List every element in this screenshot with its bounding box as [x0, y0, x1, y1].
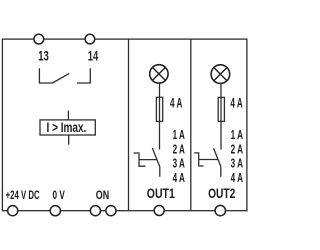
- lamp L1: [150, 65, 168, 83]
- svg-text:4 A: 4 A: [230, 95, 242, 111]
- svg-text:ON: ON: [96, 188, 109, 202]
- switch S1 manual actuator: [134, 153, 146, 166]
- svg-text:I > Imax.: I > Imax.: [47, 119, 87, 135]
- svg-text:1 A: 1 A: [173, 128, 185, 142]
- svg-text:0 V: 0 V: [53, 188, 66, 202]
- signal contact 13-14 left lead: [39, 68, 52, 83]
- terminal 13: [34, 34, 44, 44]
- switch S2 manual actuator: [194, 153, 203, 166]
- linkage stub above Imax box: [67, 111, 69, 120]
- wire lamp L2 to switch S2: [220, 83, 222, 149]
- svg-text:1 A: 1 A: [231, 128, 243, 142]
- terminal 14: [85, 34, 95, 44]
- svg-text:2 A: 2 A: [231, 142, 243, 156]
- svg-text:4 A: 4 A: [173, 171, 185, 185]
- svg-text:4 A: 4 A: [170, 95, 182, 111]
- svg-text:+24 V DC: +24 V DC: [6, 188, 40, 202]
- terminal 0V: [50, 206, 60, 216]
- lamp L2: [211, 65, 230, 84]
- fuse F1 4A: [156, 97, 162, 121]
- linkage stub below Imax box: [68, 135, 70, 145]
- wire switch S1 to OUT1: [159, 166, 161, 176]
- svg-text:3 A: 3 A: [231, 157, 243, 171]
- wire lamp L1 to switch S1: [159, 83, 161, 149]
- signal contact 13-14 right lead: [77, 68, 90, 83]
- svg-text:OUT2: OUT2: [208, 186, 235, 201]
- switch S1 blade: [152, 148, 159, 167]
- outer enclosure box: [2, 39, 247, 211]
- terminal +24V: [8, 206, 18, 216]
- terminal ON b: [106, 206, 116, 216]
- svg-text:2 A: 2 A: [173, 142, 185, 156]
- svg-text:3 A: 3 A: [173, 157, 185, 171]
- svg-text:13: 13: [38, 47, 49, 63]
- signal contact blade: [53, 73, 70, 83]
- svg-text:OUT1: OUT1: [147, 186, 175, 201]
- divider between control section and OUT1 channel: [128, 39, 130, 211]
- terminal ON a: [90, 206, 100, 216]
- svg-text:4 A: 4 A: [231, 171, 243, 185]
- switch S2 blade: [214, 148, 221, 166]
- terminal OUT2: [215, 205, 225, 215]
- wire switch S2 to OUT2: [220, 166, 222, 176]
- terminal OUT1: [154, 206, 164, 216]
- fuse F2 4A: [218, 97, 224, 121]
- svg-text:14: 14: [88, 47, 99, 63]
- divider between OUT1 and OUT2 channels: [190, 39, 192, 211]
- overcurrent trip box I>Imax: [40, 120, 95, 135]
